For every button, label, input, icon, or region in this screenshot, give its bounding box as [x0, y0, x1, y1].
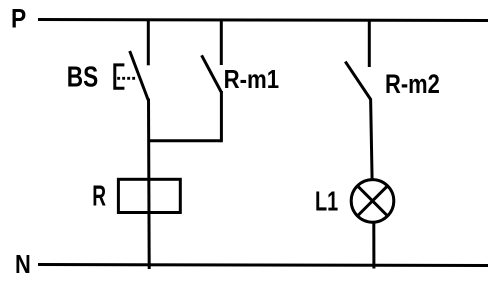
contact R-m2 blade	[345, 62, 370, 100]
wire branch3 bottom (lamp to N)	[372, 222, 375, 268]
wire junction horizontal (R-m1 branch to branch1)	[148, 139, 221, 142]
wire branch2 lower vertical	[220, 91, 223, 142]
svg-text:L1: L1	[315, 185, 338, 216]
svg-text:N: N	[15, 251, 31, 279]
pushbutton BS dotted actuator link	[117, 77, 137, 80]
wire N bus (bottom supply line)	[38, 265, 488, 266]
wire P bus (top supply line)	[38, 20, 488, 21]
lamp L1 cross stroke 2	[357, 186, 387, 216]
wire branch3 mid (switch to lamp)	[371, 99, 373, 181]
pushbutton BS blade	[130, 51, 149, 100]
lamp L1 circle	[351, 180, 394, 223]
svg-text:R-m1: R-m1	[224, 64, 280, 94]
svg-text:R: R	[92, 181, 106, 213]
contact R-m1 blade	[202, 55, 222, 92]
svg-text:P: P	[11, 3, 26, 33]
svg-text:BS: BS	[67, 62, 98, 94]
wire branch2 top drop from P	[220, 20, 223, 66]
wire branch3 top drop from P	[368, 20, 371, 68]
wire branch1 top drop from P	[147, 20, 150, 66]
lamp L1 cross stroke 1	[357, 186, 387, 216]
relay coil R box	[118, 179, 180, 212]
svg-text:R-m2: R-m2	[385, 69, 440, 99]
pushbutton BS actuator bracket	[115, 65, 125, 88]
wire branch1 lower (switch to N through coil)	[147, 99, 151, 270]
